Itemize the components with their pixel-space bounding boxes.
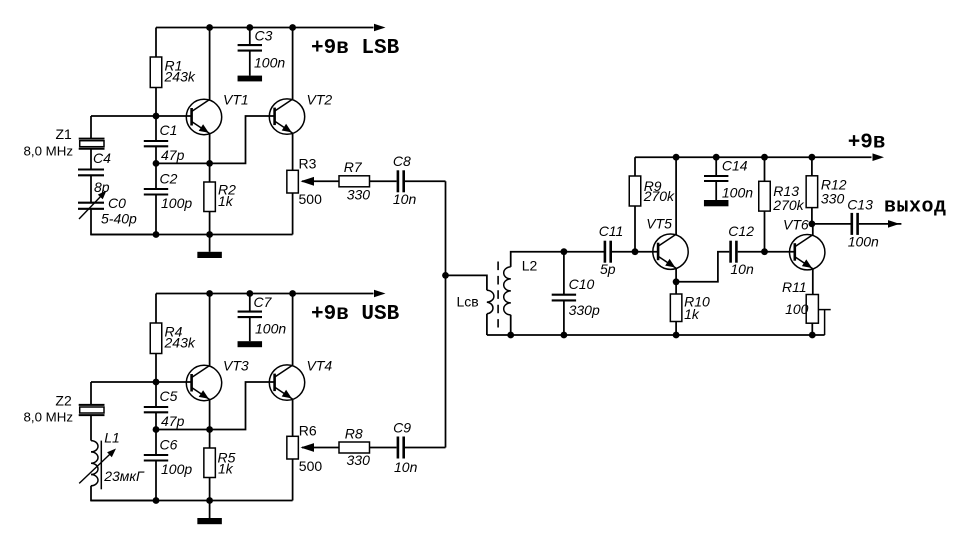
wire VT6 emitter [812,269,814,294]
crystal Z1 8,0 MHz [24,126,105,159]
label +9в LSB power net [311,37,400,60]
wire C13 to output arrow [859,223,902,225]
svg-text:330: 330 [347,186,371,202]
wire VT4 emitter [292,399,294,436]
wire crystal branch top USB [90,382,92,405]
svg-text:100n: 100n [255,321,286,337]
junction R10 bottom at rail [673,332,680,339]
junction C3 at rail [246,24,253,31]
wire summing line vertical [445,181,447,447]
wire VT3 collector [209,294,211,367]
label выход output net [884,196,947,219]
potentiometer R6 500 [287,423,323,475]
junction VT3 collector at rail [206,290,213,297]
capacitor C14 100n [704,157,753,200]
resistor R10 1k [670,293,710,322]
resistor R1 243k [150,57,196,88]
capacitor C13 100n [847,197,879,250]
wire C3 bottom stub [249,51,251,76]
wire C6 top [155,430,157,456]
wire R11 bottom [811,323,813,335]
wire C5 to mid node [155,412,157,429]
svg-text:330: 330 [347,452,371,468]
wire USB bottom rail [91,500,293,502]
wire C10 bottom [563,300,565,335]
svg-text:270k: 270k [643,188,675,204]
wire C0 to bottom rail [91,209,156,235]
wire C10 top [563,252,565,295]
junction C1-C2 mid node [153,160,160,167]
wire C8 to summing line [405,180,446,182]
junction VT3 emitter mid node [206,426,213,433]
ground C3 [238,76,262,82]
capacitor C7 100n [238,294,287,337]
svg-text:Z2: Z2 [55,393,72,409]
junction summing line to transformer [442,272,449,279]
wire C4 to C0 [90,175,92,202]
junction R5 bottom [206,497,213,504]
wire VT1 collector [209,28,211,101]
transformer core dashed line [497,262,499,328]
svg-text:1k: 1k [684,306,700,322]
svg-text:C2: C2 [160,170,178,186]
capacitor C2 100p [144,170,193,211]
svg-text:100: 100 [785,301,809,317]
capacitor C12 10n [728,223,754,277]
svg-text:8p: 8p [94,179,110,195]
wire VT2 emitter [292,133,294,170]
junction R11 bottom at rail [809,332,816,339]
svg-text:L1: L1 [104,430,120,446]
svg-text:10n: 10n [394,459,418,475]
svg-text:100n: 100n [848,234,879,250]
wire VT6 collector [812,224,814,236]
wire C6 bottom [155,461,157,501]
wire R_bias bottom [155,354,157,383]
svg-text:8,0 MHz: 8,0 MHz [24,144,74,159]
transistor VT4 [269,358,332,401]
svg-text:100p: 100p [161,461,192,477]
junction C7 at rail [246,290,253,297]
wire R7 to C8 [370,180,397,182]
svg-text:8,0 MHz: 8,0 MHz [24,410,74,425]
wire VT1 emitter [209,134,211,182]
wire base to C5 [155,382,157,407]
label +9в USB power net [311,303,400,326]
wire R13 top to rail [764,157,766,181]
wire R12 top to rail [811,157,813,176]
svg-text:243k: 243k [164,335,196,351]
capacitor C8 10n [393,153,417,207]
svg-text:1k: 1k [218,461,234,477]
wire R13 bottom [764,211,766,252]
svg-text:+9в USB: +9в USB [311,303,400,326]
junction R13 at rail [761,154,768,161]
junction C5-C6 mid node [153,426,160,433]
svg-text:C1: C1 [160,122,178,138]
svg-text:C10: C10 [569,276,595,292]
svg-text:C7: C7 [254,294,273,310]
junction R13 bottom node [761,248,768,255]
wire Lcv primary bottom [486,314,488,335]
wire C3 top stub [249,28,251,46]
capacitor C1 47p [144,122,185,163]
svg-text:330p: 330p [569,302,600,318]
wire crystal branch top [90,116,92,139]
wire mid node to VT2 base riser [156,116,275,163]
wire VT4 collector [292,294,294,366]
transformer primary Lсв [457,290,494,314]
svg-text:100n: 100n [722,185,753,201]
svg-text:выход: выход [884,196,947,219]
wire C1 to mid node [155,146,157,163]
wire R9 top to rail [634,157,636,176]
capacitor C3 100n [238,28,286,71]
svg-text:330: 330 [821,190,845,206]
svg-text:C9: C9 [393,420,411,436]
junction VT1 emitter mid node [206,160,213,167]
wire ground stub [209,235,211,252]
svg-text:+9в LSB: +9в LSB [311,37,400,60]
wire LSB bottom rail [91,234,293,236]
svg-text:47p: 47p [161,147,185,163]
svg-text:C12: C12 [728,223,754,239]
junction R12 at rail [809,154,816,161]
resistor R11 100 trimmer [782,279,831,335]
svg-text:C0: C0 [108,195,126,211]
wire R10 bottom [675,322,677,336]
junction tank node A [561,248,568,255]
wire VT5 collector [675,157,677,235]
resistor R8 330 [339,426,370,468]
inductor L1 23мкГ variable [79,430,145,490]
junction R9 bottom node [632,248,639,255]
resistor R9 270k [629,176,675,206]
wire base node horizontal [91,381,191,383]
svg-text:R6: R6 [299,423,317,439]
wire R6 bottom to ground rail [292,459,294,501]
junction VT1 collector at rail [206,24,213,31]
wire L1 to bottom rail [91,486,156,501]
junction C6 bottom [153,497,160,504]
wire base node horizontal [91,115,191,117]
svg-text:VT6: VT6 [783,216,809,232]
junction VT5 collector at rail [673,154,680,161]
capacitor C0 5-40p variable [78,191,137,227]
wire C2 bottom [155,195,157,235]
svg-text:5-40p: 5-40p [101,210,137,226]
svg-text:Lсв: Lсв [457,294,479,310]
wire R8 to C9 [370,447,397,449]
transistor VT2 [269,92,332,135]
arrow +9v LSB rail arrowhead [374,24,386,32]
capacitor C9 10n [393,420,417,476]
wire VT3 emitter [209,400,211,448]
junction L2 bottom at rail [507,332,514,339]
wire amplifier bottom rail [487,334,825,336]
transformer secondary L2 [504,257,538,315]
svg-text:R3: R3 [299,156,317,172]
wire C11 to VT5 base [612,251,658,253]
wire C14 bottom stub [715,181,717,200]
svg-text:C3: C3 [255,28,273,44]
svg-text:L2: L2 [522,257,538,273]
wire L2 bottom [510,315,512,335]
junction C2 bottom [153,231,160,238]
junction C10 bottom at rail [561,332,568,339]
arrow output arrowhead [888,220,900,228]
ground C7 [238,341,262,347]
crystal Z2 8,0 MHz [24,393,105,425]
wire C13 output tap [812,223,851,225]
wire L2 top [511,252,604,267]
wire base to C1 [155,116,157,141]
wire junction to Lcv primary [446,275,487,290]
svg-text:VT4: VT4 [307,358,333,374]
svg-text:100n: 100n [254,54,285,70]
svg-text:23мкГ: 23мкГ [103,468,145,484]
svg-text:R11: R11 [782,279,807,295]
transistor VT6 [783,216,825,270]
capacitor C5 47p [144,388,185,429]
wire C7 bottom stub [249,317,251,341]
wire Z2 to L1 [90,415,92,441]
wire C12 to VT6 base [738,251,795,253]
svg-text:270k: 270k [772,197,804,213]
junction VT4 collector at rail [289,290,296,297]
svg-text:243k: 243k [164,69,196,85]
svg-text:500: 500 [299,191,323,207]
wire VT5 emitter [675,269,677,282]
wire C2 top [155,163,157,189]
wire +9v LSB supply rail [156,27,374,29]
wire R3 wiper to R7 [302,180,339,182]
wire C7 top stub [249,294,251,312]
label +9в power net [848,132,886,155]
wire +9v amplifier rail [635,156,872,158]
wire R5 bottom [209,478,211,501]
resistor R4 243k [150,323,196,354]
svg-text:VT3: VT3 [223,358,249,374]
svg-text:C14: C14 [722,157,748,173]
junction VT6 collector output node [809,221,816,228]
svg-text:R7: R7 [344,159,363,175]
wire VT5 emitter to C12 [676,252,729,282]
svg-text:VT2: VT2 [307,92,333,108]
potentiometer R3 500 [287,156,322,208]
svg-text:Z1: Z1 [56,126,73,142]
svg-text:100p: 100p [161,195,192,211]
resistor R2 1k [204,182,236,212]
capacitor C11 5p [599,223,624,277]
transistor VT1 [186,92,248,135]
junction base node [153,113,160,120]
junction VT2 collector at rail [289,24,296,31]
svg-text:R8: R8 [345,426,363,442]
resistor R12 330 [806,176,847,208]
svg-text:500: 500 [299,458,323,474]
capacitor C6 100p [144,436,193,477]
wire R6 wiper to R8 [302,447,339,449]
wire mid node to VT4 base riser [156,382,275,430]
wire R2 bottom [209,212,211,235]
wire VT2 collector [292,28,294,100]
resistor R5 1k [204,448,236,478]
svg-text:C8: C8 [393,153,411,169]
transistor VT3 [186,358,249,401]
wire R_bias top [155,294,157,324]
svg-text:C5: C5 [160,388,178,404]
svg-text:+9в: +9в [848,132,886,155]
wire Z1 to C4 [90,149,92,170]
wire R12 bottom [811,208,813,224]
capacitor C10 330p [552,276,600,318]
wire R_bias top [155,28,157,58]
arrow +9v USB rail arrowhead [374,290,386,298]
svg-text:10n: 10n [730,261,754,277]
svg-text:C6: C6 [160,436,178,452]
svg-text:47p: 47p [161,413,185,429]
wire ground stub USB [209,501,211,519]
svg-text:VT5: VT5 [646,216,672,232]
ground USB [197,518,222,524]
wire R10 top [675,282,677,294]
wire +9v USB supply rail [156,293,374,295]
svg-text:1k: 1k [218,193,234,209]
svg-text:C4: C4 [93,150,111,166]
junction C14 at rail [713,154,720,161]
svg-text:C13: C13 [847,197,873,213]
svg-text:VT1: VT1 [223,92,249,108]
resistor R7 330 [339,159,370,203]
svg-text:10n: 10n [393,191,417,207]
ground LSB [197,252,222,258]
wire R_bias bottom [155,88,157,117]
wire C9 to summing line [405,447,446,449]
resistor R13 270k [759,181,805,213]
arrow +9v rail arrowhead [873,153,885,161]
junction VT5 emitter node [673,278,680,285]
transistor VT5 [646,216,688,270]
ground C14 [704,200,729,206]
wire R3 bottom to ground rail [292,193,294,235]
junction base node [153,379,160,386]
svg-text:5p: 5p [600,261,616,277]
wire R9 bottom [634,206,636,252]
wire C14 top stub [715,157,717,176]
junction R2 bottom [206,231,213,238]
capacitor C4 8p [78,150,111,195]
svg-text:C11: C11 [599,223,624,239]
